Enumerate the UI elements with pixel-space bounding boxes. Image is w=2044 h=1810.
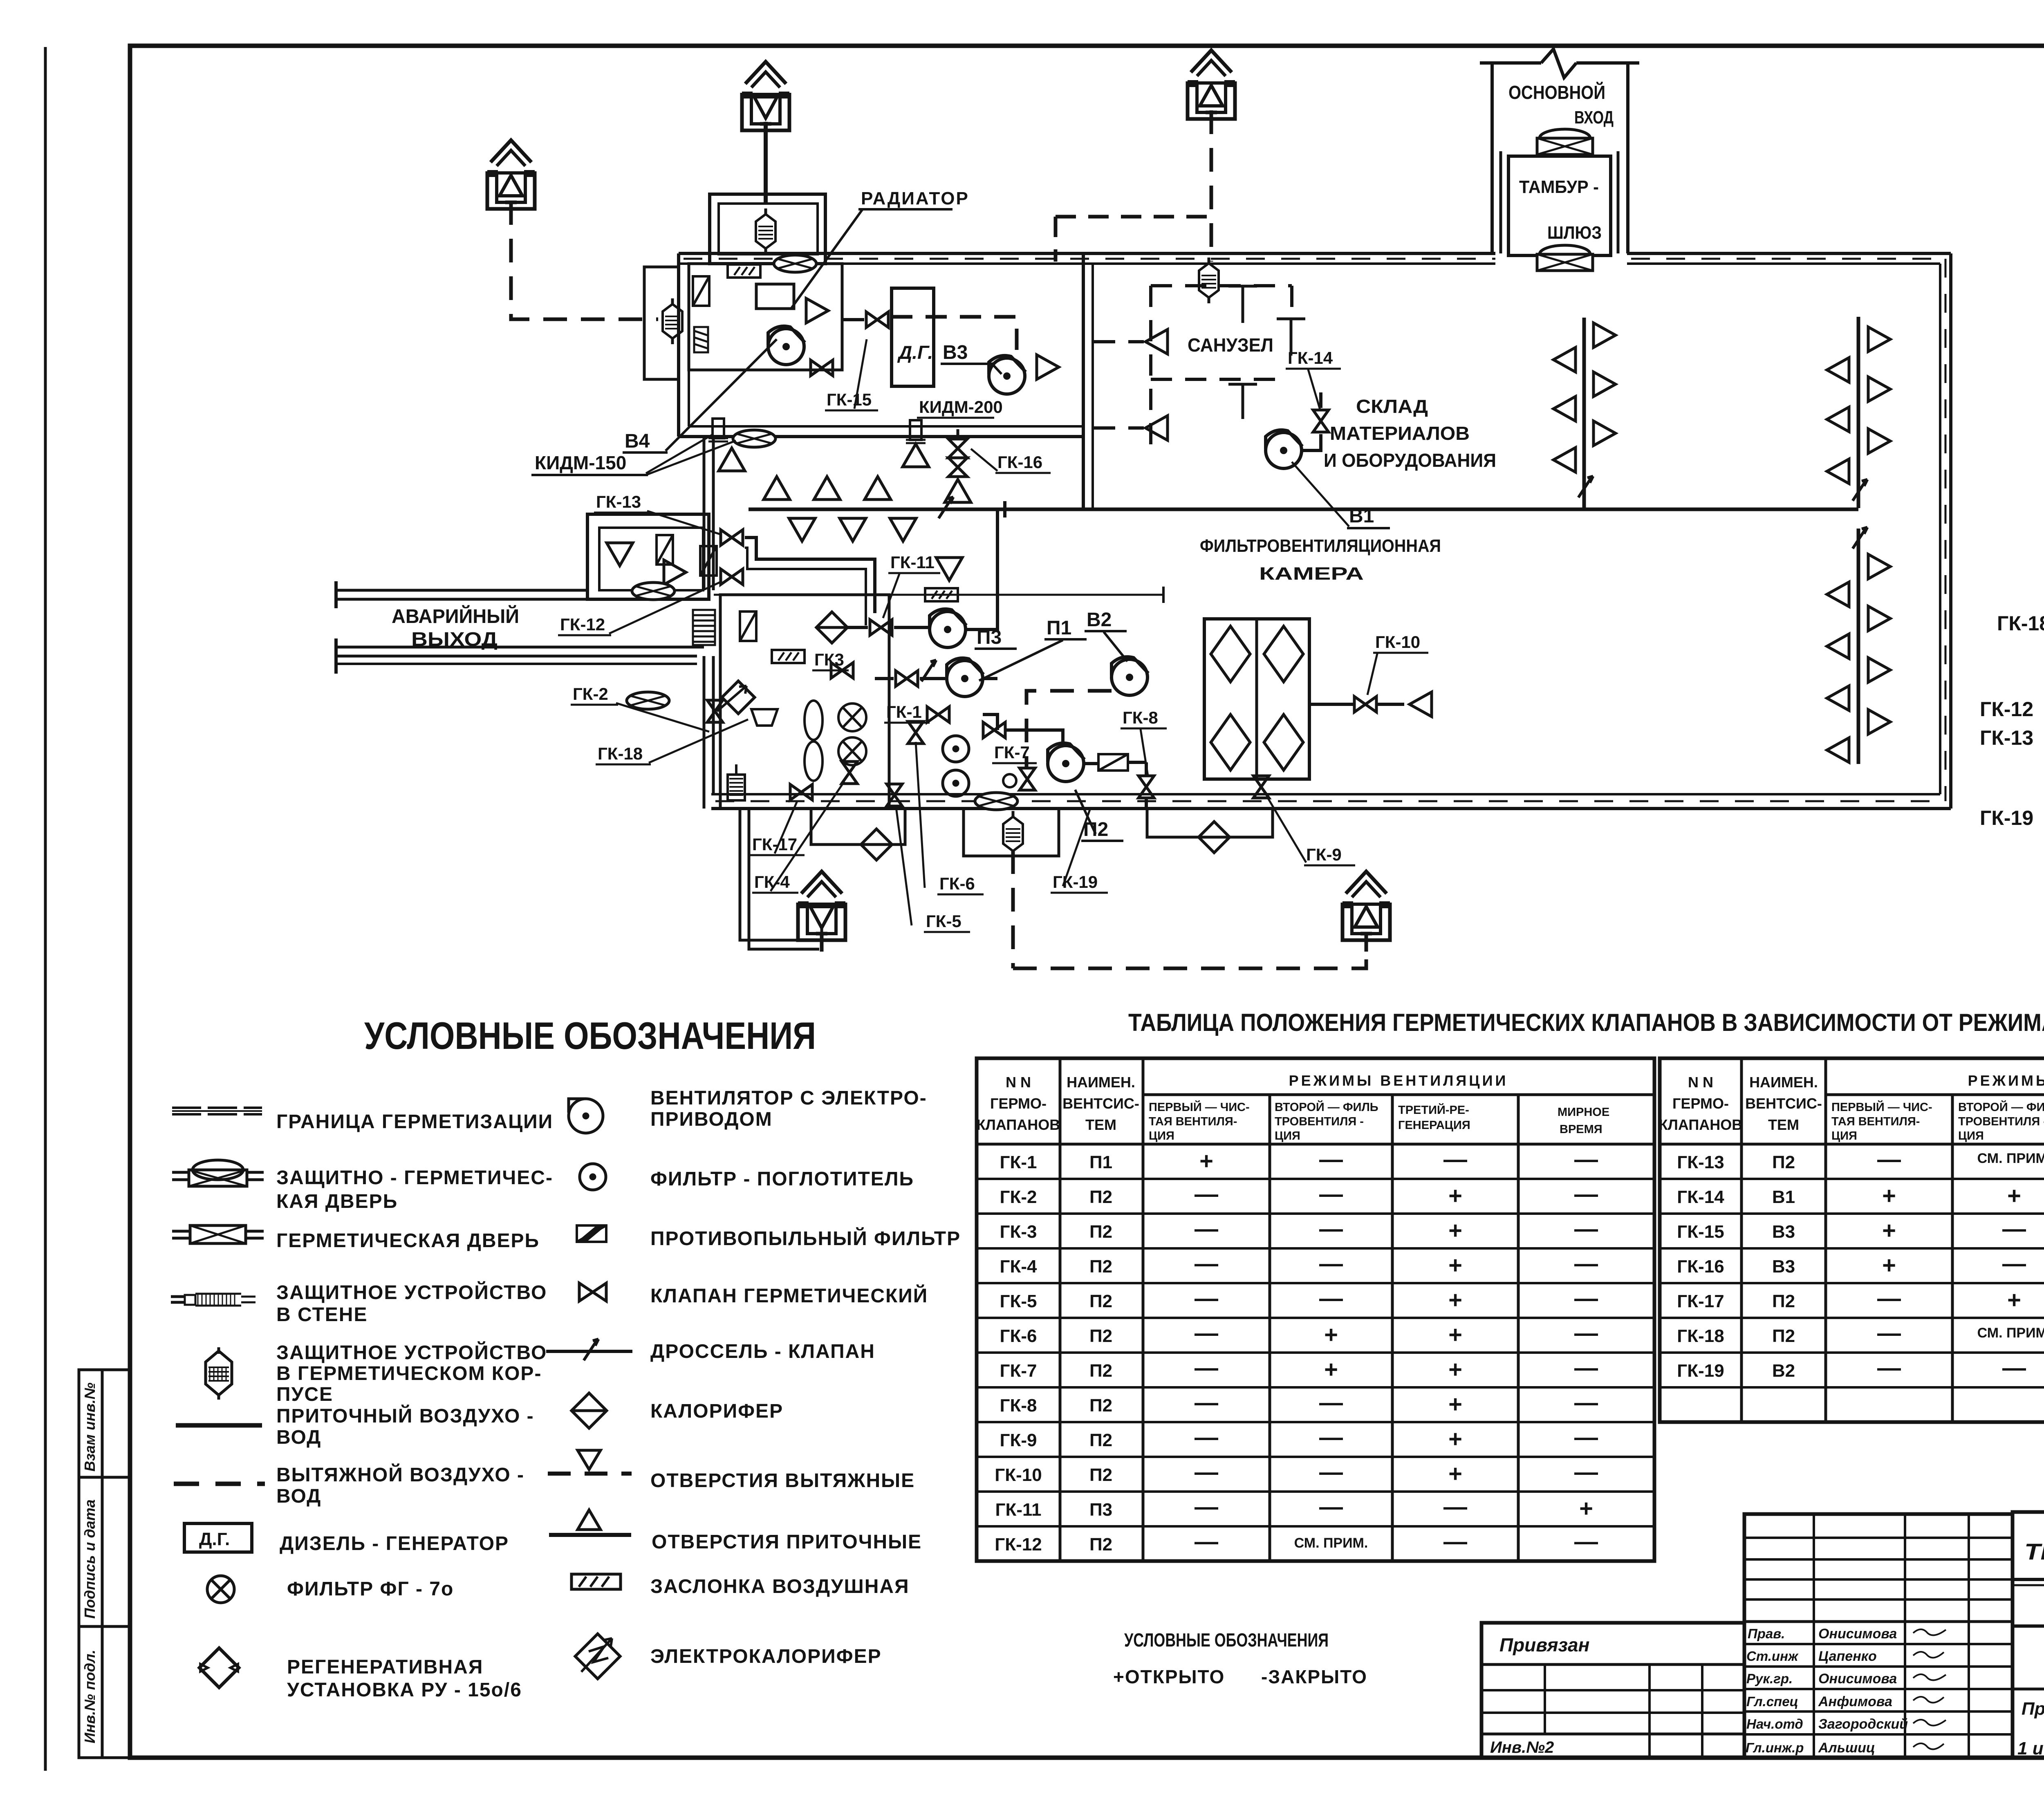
label ГК-10 [1367, 632, 1428, 695]
svg-text:ВТОРОЙ — ФИЛЬ: ВТОРОЙ — ФИЛЬ [1275, 1100, 1378, 1114]
small fans in regen room [838, 703, 866, 765]
svg-text:ВЕНТСИС-: ВЕНТСИС- [1062, 1095, 1139, 1112]
svg-text:ГК-12: ГК-12 [560, 615, 605, 634]
svg-text:Рук.гр.: Рук.гр. [1746, 1671, 1793, 1686]
svg-text:ГК-19: ГК-19 [1053, 872, 1098, 892]
label П2 [1075, 790, 1123, 841]
svg-text:П2: П2 [1089, 1361, 1112, 1381]
svg-text:+: + [1882, 1183, 1896, 1209]
svg-text:+: + [1448, 1287, 1462, 1313]
svg-text:ОСНОВНОЙ: ОСНОВНОЙ [1508, 82, 1605, 103]
svg-text:+: + [2007, 1183, 2021, 1209]
svg-text:МАТЕРИАЛОВ: МАТЕРИАЛОВ [1330, 423, 1470, 444]
svg-text:ПУСЕ: ПУСЕ [276, 1384, 333, 1405]
svg-text:ТАМБУР -: ТАМБУР - [1519, 177, 1599, 197]
valve GK-12 [721, 569, 743, 585]
duct loop below wall left [811, 809, 905, 845]
svg-text:ВЫХОД: ВЫХОД [411, 629, 498, 650]
exhaust triangle in exit room [607, 543, 633, 566]
valve GK-14 [1313, 410, 1329, 432]
svg-text:ГК-17: ГК-17 [1677, 1291, 1724, 1311]
svg-text:+: + [1324, 1356, 1338, 1383]
svg-text:П2: П2 [1089, 1257, 1112, 1277]
svg-text:—: — [1574, 1355, 1598, 1381]
label П3 [975, 627, 1017, 649]
svg-text:ТРОВЕНТИЛЯ -: ТРОВЕНТИЛЯ - [1275, 1115, 1364, 1128]
svg-text:ГК-11: ГК-11 [995, 1500, 1042, 1520]
label П1 [979, 617, 1087, 681]
svg-text:—: — [1574, 1424, 1598, 1451]
svg-text:Взам инв.№: Взам инв.№ [81, 1382, 98, 1472]
wire: dashed V2 exhaust [1013, 691, 1366, 968]
right table data [1677, 1152, 1795, 1381]
svg-text:ТАБЛИЦА ПОЛОЖЕНИЯ ГЕРМЕТИЧЕСКИ: ТАБЛИЦА ПОЛОЖЕНИЯ ГЕРМЕТИЧЕСКИХ КЛАПАНОВ… [1128, 1009, 2044, 1036]
svg-text:ЦИЯ: ЦИЯ [1149, 1129, 1174, 1142]
svg-text:—: — [1195, 1250, 1218, 1277]
dust filter on riser [700, 546, 717, 576]
dust filter on exit room wall [657, 535, 673, 565]
valve GK-1 [927, 707, 949, 722]
svg-text:ГК-16: ГК-16 [1677, 1257, 1724, 1277]
svg-text:ОТВЕРСТИЯ ПРИТОЧНЫЕ: ОТВЕРСТИЯ ПРИТОЧНЫЕ [652, 1531, 922, 1553]
svg-text:+: + [1448, 1217, 1462, 1244]
svg-text:—: — [1319, 1424, 1343, 1451]
legend icon: защитно-герметическая дверь [172, 1160, 264, 1186]
svg-text:—: — [1443, 1146, 1467, 1173]
supply triangle under KIDM-200 [903, 444, 929, 467]
svg-text:ГК-1: ГК-1 [886, 702, 922, 721]
svg-text:ТП А-Ⅱ-600-338.86: ТП А-Ⅱ-600-338.86 [2024, 1539, 2044, 1564]
svg-text:Ст.инж: Ст.инж [1746, 1649, 1799, 1664]
airlock oval on exit room floor [632, 582, 675, 600]
protective device in wall on duct [693, 610, 715, 645]
hopper device GK-18 target [751, 709, 778, 726]
sanuzel exhaust triangle upper [1145, 329, 1168, 354]
wall: hall left wall [1083, 253, 1093, 509]
svg-text:ГК-2: ГК-2 [573, 684, 608, 703]
svg-text:Гл.спец: Гл.спец [1746, 1694, 1798, 1709]
svg-text:ВОД: ВОД [276, 1485, 321, 1507]
svg-text:+: + [1448, 1426, 1462, 1452]
left table grid [977, 1058, 1654, 1561]
svg-text:Цапенко: Цапенко [1818, 1649, 1877, 1664]
svg-text:П2: П2 [1089, 1430, 1112, 1450]
filter FG-70 on middle loop [1003, 811, 1023, 857]
svg-text:ФИЛЬТРОВЕНТИЛЯЦИОННАЯ: ФИЛЬТРОВЕНТИЛЯЦИОННАЯ [1200, 536, 1441, 556]
svg-text:+: + [1882, 1252, 1896, 1279]
wire to P1 [875, 677, 945, 680]
wall: building top wall right segment [1627, 253, 1951, 264]
svg-text:ФИЛЬТР ФГ - 7о: ФИЛЬТР ФГ - 7о [287, 1578, 454, 1600]
left table header text [977, 1072, 1508, 1133]
svg-text:П2: П2 [1089, 1291, 1112, 1311]
valve GK-16 double [948, 429, 967, 477]
svg-text:+: + [1579, 1495, 1593, 1522]
regen room outline [720, 595, 889, 809]
svg-text:—: — [2002, 1250, 2026, 1277]
svg-text:П2: П2 [1772, 1291, 1795, 1311]
svg-text:П2: П2 [1772, 1326, 1795, 1346]
svg-text:—: — [1319, 1494, 1343, 1520]
svg-text:П2: П2 [1089, 1326, 1112, 1346]
svg-text:ВХОД: ВХОД [1574, 108, 1614, 128]
fan V4 [768, 326, 805, 365]
kalorifer below wall left [861, 829, 892, 860]
svg-text:Инв.№2: Инв.№2 [1490, 1738, 1554, 1756]
svg-text:N N: N N [1688, 1074, 1713, 1091]
svg-text:УСЛОВНЫЕ ОБОЗНАЧЕНИЯ: УСЛОВНЫЕ ОБОЗНАЧЕНИЯ [364, 1014, 816, 1057]
svg-text:—: — [1574, 1285, 1598, 1312]
label ГК-5 [896, 807, 970, 932]
hermetic door on bottom duct [975, 793, 1018, 810]
room: V4 fan room [689, 264, 842, 370]
legend icon: защитное устройство в стене [171, 1294, 255, 1306]
chimney stack C5 [1342, 871, 1390, 952]
label ГК-1 [884, 702, 930, 723]
room: roof vent box above DES [710, 194, 825, 264]
svg-text:—: — [1195, 1216, 1218, 1242]
svg-text:СМ. ПРИМ.: СМ. ПРИМ. [1977, 1325, 2044, 1341]
svg-text:+ОТКРЫТО: +ОТКРЫТО [1113, 1666, 1225, 1687]
svg-text:СМ. ПРИМ.: СМ. ПРИМ. [1294, 1535, 1368, 1551]
boundary line with damper [714, 587, 1163, 603]
svg-text:КИДМ-200: КИДМ-200 [919, 397, 1003, 417]
svg-text:ГК-18: ГК-18 [598, 744, 643, 763]
duct branch from GK-13 to P3 area [745, 538, 875, 613]
svg-text:ГК-4: ГК-4 [1000, 1257, 1037, 1277]
svg-text:ГК-15: ГК-15 [1677, 1222, 1724, 1242]
legend icon: защитное устройство в герметическом корпусе [206, 1347, 232, 1400]
svg-text:ЦИЯ: ЦИЯ [1831, 1129, 1857, 1142]
svg-text:ВЕНТИЛЯТОР С ЭЛЕКТРО-: ВЕНТИЛЯТОР С ЭЛЕКТРО- [650, 1087, 927, 1109]
svg-text:—: — [1877, 1285, 1901, 1312]
damper in regen room [772, 650, 805, 663]
fan P2 [1048, 743, 1085, 782]
dust filter on DES left wall [693, 276, 709, 306]
svg-text:ГК-9: ГК-9 [1000, 1430, 1037, 1450]
tambur: main entrance box [1480, 49, 1639, 253]
svg-text:РЕГЕНЕРАТИВНАЯ: РЕГЕНЕРАТИВНАЯ [287, 1656, 483, 1678]
svg-text:В СТЕНЕ: В СТЕНЕ [276, 1304, 368, 1326]
diesel generator box Д.Г. [892, 288, 934, 386]
sanuzel: dashed room outline [1094, 286, 1292, 454]
svg-text:П2: П2 [1083, 819, 1108, 840]
valve pair before P1 [896, 671, 918, 686]
svg-text:+: + [1324, 1322, 1338, 1348]
label ГК-12 [558, 582, 720, 635]
svg-text:Нач.отд: Нач.отд [1746, 1716, 1803, 1732]
label ГК-14 [1286, 348, 1341, 411]
dust filter in regen room [740, 612, 756, 641]
svg-text:—: — [1574, 1528, 1598, 1555]
svg-text:КЛАПАНОВ: КЛАПАНОВ [1659, 1116, 1743, 1133]
svg-text:—: — [1443, 1528, 1467, 1555]
damper block on DES left wall [694, 327, 708, 352]
svg-text:Загородский: Загородский [1818, 1716, 1908, 1732]
wall: hall bottom wall [711, 794, 1951, 809]
exhaust column 1 in hall [1553, 318, 1616, 508]
svg-text:ВТОРОЙ — ФИЛЬ: ВТОРОЙ — ФИЛЬ [1958, 1100, 2044, 1114]
svg-text:—: — [1319, 1459, 1343, 1485]
svg-text:В3: В3 [1772, 1222, 1795, 1242]
radiator Р [756, 284, 794, 309]
svg-text:ВРЕМЯ: ВРЕМЯ [1560, 1123, 1602, 1136]
legend icon: противопыльный фильтр [577, 1225, 606, 1242]
svg-text:—: — [1195, 1459, 1218, 1485]
svg-text:ГК-6: ГК-6 [1000, 1326, 1037, 1346]
svg-text:П2: П2 [1089, 1465, 1112, 1485]
svg-text:ПЕРВЫЙ — ЧИС-: ПЕРВЫЙ — ЧИС- [1149, 1100, 1250, 1114]
svg-text:Анфимова: Анфимова [1818, 1694, 1892, 1709]
svg-text:ГК-8: ГК-8 [1123, 708, 1158, 727]
right table grid [1660, 1058, 2044, 1422]
svg-text:ГЕНЕРАЦИЯ: ГЕНЕРАЦИЯ [1398, 1119, 1470, 1132]
sheet name [2017, 1699, 2044, 1758]
left table data [995, 1152, 1112, 1555]
emergency exit room [587, 514, 709, 599]
svg-text:1 и 2 климатические зоны: 1 и 2 климатические зоны [2017, 1738, 2044, 1758]
svg-text:Подпись и дата: Подпись и дата [81, 1499, 98, 1619]
valve GK-11 [870, 620, 892, 635]
wire at V1 [1302, 392, 1321, 450]
svg-text:—: — [1319, 1285, 1343, 1312]
valve GK-4 [842, 762, 857, 784]
valve GK-2 [707, 700, 723, 722]
svg-text:ГК-16: ГК-16 [997, 452, 1042, 472]
exhaust column 2 lower segment [1827, 527, 1890, 764]
wall: building top wall left segment [679, 253, 1495, 264]
svg-text:—: — [1877, 1355, 1901, 1381]
legend icon: герметическая дверь [172, 1225, 264, 1243]
svg-text:АВАРИЙНЫЙ: АВАРИЙНЫЙ [392, 605, 519, 627]
svg-text:+: + [2007, 1287, 2021, 1313]
svg-text:—: — [1574, 1459, 1598, 1485]
wire P1 P3 to hall [966, 509, 997, 679]
valve GK-10 [1354, 697, 1376, 712]
svg-text:ГК-8: ГК-8 [1000, 1396, 1037, 1416]
svg-text:НАИМЕН.: НАИМЕН. [1067, 1074, 1135, 1091]
svg-text:ВЕНТСИС-: ВЕНТСИС- [1745, 1095, 1822, 1112]
supply triangle right of V3 [1037, 355, 1059, 379]
room: air intake box on left [644, 267, 679, 379]
svg-text:ГК-6: ГК-6 [939, 874, 975, 893]
right table header text [1659, 1072, 2044, 1133]
door to regen room [627, 692, 669, 709]
svg-text:ЦИЯ: ЦИЯ [1958, 1129, 1984, 1142]
legend icon: граница герметизации [172, 1108, 262, 1114]
svg-text:ШЛЮЗ: ШЛЮЗ [1547, 223, 1602, 243]
svg-text:ТРОВЕНТИЛЯ -: ТРОВЕНТИЛЯ - [1958, 1115, 2044, 1128]
svg-text:—: — [1195, 1355, 1218, 1381]
svg-text:—: — [1574, 1389, 1598, 1416]
svg-text:Принципиальная схема: Принципиальная схема [2022, 1699, 2044, 1719]
legend icon: регенеративная установка [199, 1648, 239, 1688]
valve GK-15 [866, 312, 888, 327]
wire: dashed branch at sanuzel top [1056, 217, 1211, 262]
signature names [1818, 1626, 1908, 1756]
chimney stack C1 [487, 140, 535, 220]
main riser duct from DES down [704, 437, 713, 809]
fan V2 [1112, 657, 1148, 695]
regen unit ovals [805, 701, 823, 781]
svg-text:—: — [1877, 1146, 1901, 1173]
signature grid [1744, 1514, 2013, 1758]
svg-text:П2: П2 [1772, 1152, 1795, 1172]
door on V4 room top [774, 255, 816, 272]
svg-text:+: + [1882, 1217, 1896, 1244]
svg-text:—: — [1319, 1181, 1343, 1207]
svg-text:В2: В2 [1087, 609, 1112, 631]
label В1 [1292, 462, 1390, 528]
svg-text:ГК-5: ГК-5 [926, 912, 961, 931]
svg-text:—: — [1574, 1320, 1598, 1346]
svg-text:N N: N N [1006, 1074, 1031, 1091]
svg-text:+: + [1199, 1148, 1213, 1174]
kalorifer on right loop [1199, 822, 1230, 853]
legend icon: электрокалорифер [575, 1634, 620, 1679]
valve GK-3 [831, 663, 853, 678]
kalorifer right of P2 [1098, 754, 1128, 771]
svg-text:—: — [2002, 1216, 2026, 1242]
svg-text:+: + [1448, 1356, 1462, 1383]
svg-text:ГК-12: ГК-12 [995, 1534, 1042, 1555]
svg-text:Д.Г.: Д.Г. [199, 1529, 230, 1549]
outer trim line left [44, 47, 47, 1771]
svg-text:ЭЛЕКТРОКАЛОРИФЕР: ЭЛЕКТРОКАЛОРИФЕР [650, 1646, 882, 1667]
svg-text:ЗАЩИТНОЕ УСТРОЙСТВО: ЗАЩИТНОЕ УСТРОЙСТВО [276, 1281, 547, 1304]
filter unit in intake [663, 298, 682, 344]
svg-text:П2: П2 [1089, 1222, 1112, 1242]
svg-text:КЛАПАНОВ: КЛАПАНОВ [977, 1116, 1060, 1133]
label ГК-18 [596, 719, 748, 764]
wire: main P1 P2 supply line [983, 715, 1063, 744]
svg-text:—: — [1195, 1494, 1218, 1520]
svg-text:В3: В3 [943, 342, 968, 363]
legend icon: вентилятор с электроприводом [569, 1099, 603, 1133]
chimney stack C2 [742, 62, 789, 142]
svg-text:ГК-13: ГК-13 [1677, 1152, 1724, 1172]
legend icon: отверстия вытяжные [548, 1450, 632, 1474]
svg-text:ГК-10: ГК-10 [1375, 632, 1420, 652]
sanuzel exhaust triangle lower [1145, 416, 1168, 440]
exhaust triangles row below divider [789, 518, 815, 541]
svg-text:В ГЕРМЕТИЧЕСКОМ КОР-: В ГЕРМЕТИЧЕСКОМ КОР- [276, 1363, 542, 1384]
sidebar strip [79, 1370, 130, 1758]
svg-text:РЕЖИМЫ ВЕНТИЛЯЦИИ: РЕЖИМЫ ВЕНТИЛЯЦИИ [1968, 1072, 2044, 1089]
device КИДМ-150 on vertical duct [708, 419, 728, 441]
svg-text:—: — [1574, 1181, 1598, 1207]
label ГК-17 [750, 801, 805, 855]
hall divider duct line [749, 497, 1858, 518]
supply triangle in V4 room [806, 298, 828, 323]
svg-text:Онисимова: Онисимова [1818, 1671, 1897, 1687]
label ГК-19 [1051, 807, 1108, 893]
svg-text:САНУЗЕЛ: САНУЗЕЛ [1188, 334, 1273, 356]
svg-text:ГК-19: ГК-19 [1980, 806, 2033, 829]
svg-text:ПРИВОДОМ: ПРИВОДОМ [650, 1109, 773, 1130]
label В3 [941, 342, 1002, 374]
svg-text:ГК-19: ГК-19 [1677, 1361, 1724, 1381]
svg-text:—: — [1574, 1146, 1598, 1173]
svg-text:—: — [1195, 1424, 1218, 1451]
gauge circle [1003, 774, 1016, 787]
svg-text:+: + [1448, 1391, 1462, 1418]
valve GK-17 [790, 784, 812, 800]
legend icon: приточный воздуховод [176, 1423, 262, 1428]
svg-text:ГЕРМО-: ГЕРМО- [1672, 1095, 1729, 1112]
label ФИЛЬТРОВЕНТИЛЯЦИОННАЯ КАМЕРА [1200, 536, 1441, 584]
legend icon: дизель-генератор [184, 1523, 252, 1552]
svg-text:ГК-13: ГК-13 [1980, 726, 2033, 749]
svg-text:ЗАСЛОНКА ВОЗДУШНАЯ: ЗАСЛОНКА ВОЗДУШНАЯ [650, 1576, 910, 1597]
svg-text:В4: В4 [625, 430, 650, 452]
svg-text:Гл.инж.р: Гл.инж.р [1746, 1740, 1804, 1755]
door: protective-hermetic door top of tambur [1537, 129, 1593, 155]
air damper on wall [728, 264, 760, 278]
label ГК-4 [752, 782, 844, 893]
svg-text:ГК-14: ГК-14 [1677, 1187, 1724, 1207]
svg-text:ГК-9: ГК-9 [1306, 845, 1342, 864]
svg-text:КАЯ ДВЕРЬ: КАЯ ДВЕРЬ [276, 1191, 398, 1212]
svg-text:ДИЗЕЛЬ - ГЕНЕРАТОР: ДИЗЕЛЬ - ГЕНЕРАТОР [280, 1533, 509, 1555]
svg-text:—: — [1195, 1320, 1218, 1346]
legend icon: клапан герметический [579, 1283, 606, 1301]
svg-text:П1: П1 [1047, 617, 1071, 639]
fan P1 [947, 658, 984, 697]
svg-text:ГК-1: ГК-1 [1000, 1152, 1037, 1172]
label ГК-16 [971, 449, 1051, 473]
door: hermetic door bottom of tambur [1537, 245, 1593, 271]
svg-text:ТАЯ ВЕНТИЛЯ-: ТАЯ ВЕНТИЛЯ- [1831, 1115, 1920, 1128]
exhaust triangle near GK-11 [936, 558, 962, 580]
svg-text:ВЫТЯЖНОЙ ВОЗДУХО -: ВЫТЯЖНОЙ ВОЗДУХО - [276, 1463, 524, 1486]
valve GK-6 [908, 721, 923, 744]
svg-text:КЛАПАН ГЕРМЕТИЧЕСКИЙ: КЛАПАН ГЕРМЕТИЧЕСКИЙ [650, 1284, 928, 1307]
svg-text:ГК-2: ГК-2 [1000, 1187, 1037, 1207]
svg-text:РЕЖИМЫ ВЕНТИЛЯЦИИ: РЕЖИМЫ ВЕНТИЛЯЦИИ [1289, 1072, 1508, 1089]
svg-text:—: — [1195, 1181, 1218, 1207]
kalorifer before P3 [816, 612, 847, 643]
stamp right box [2013, 1512, 2044, 1758]
label ГК-13 [594, 492, 722, 535]
svg-text:И ОБОРУДОВАНИЯ: И ОБОРУДОВАНИЯ [1324, 450, 1496, 471]
svg-text:В3: В3 [1772, 1257, 1795, 1277]
device КИДМ-200 [906, 420, 926, 443]
label ГК-11 [883, 553, 940, 618]
svg-text:Инв.№ подл.: Инв.№ подл. [81, 1650, 98, 1743]
wall: hall right wall [1940, 253, 1951, 809]
legend icon: отверстия приточные [549, 1510, 631, 1535]
legend icon: заслонка воздушная [572, 1574, 621, 1589]
svg-text:+: + [1448, 1322, 1462, 1348]
svg-text:—: — [1574, 1250, 1598, 1277]
absorber filters pair [943, 736, 969, 762]
svg-text:—: — [1319, 1250, 1343, 1277]
label ГК-15 [825, 339, 878, 410]
label КИДМ-150 [531, 434, 736, 475]
svg-text:ЗАЩИТНОЕ УСТРОЙСТВО: ЗАЩИТНОЕ УСТРОЙСТВО [276, 1341, 547, 1364]
filter bank box with 4 absorbers [1204, 619, 1309, 779]
emergency corridor walls [336, 581, 704, 674]
svg-text:—: — [1319, 1389, 1343, 1416]
svg-text:—: — [1195, 1389, 1218, 1416]
exhaust triangle right of GK-10 [1410, 692, 1432, 717]
legend icon: фильтр ФГ-70 [207, 1576, 234, 1603]
valve on V4 room bottom wall [811, 360, 833, 376]
svg-text:ГЕРМО-: ГЕРМО- [990, 1095, 1047, 1112]
duct loop below wall right [1147, 809, 1273, 837]
signature roles [1746, 1626, 1804, 1755]
